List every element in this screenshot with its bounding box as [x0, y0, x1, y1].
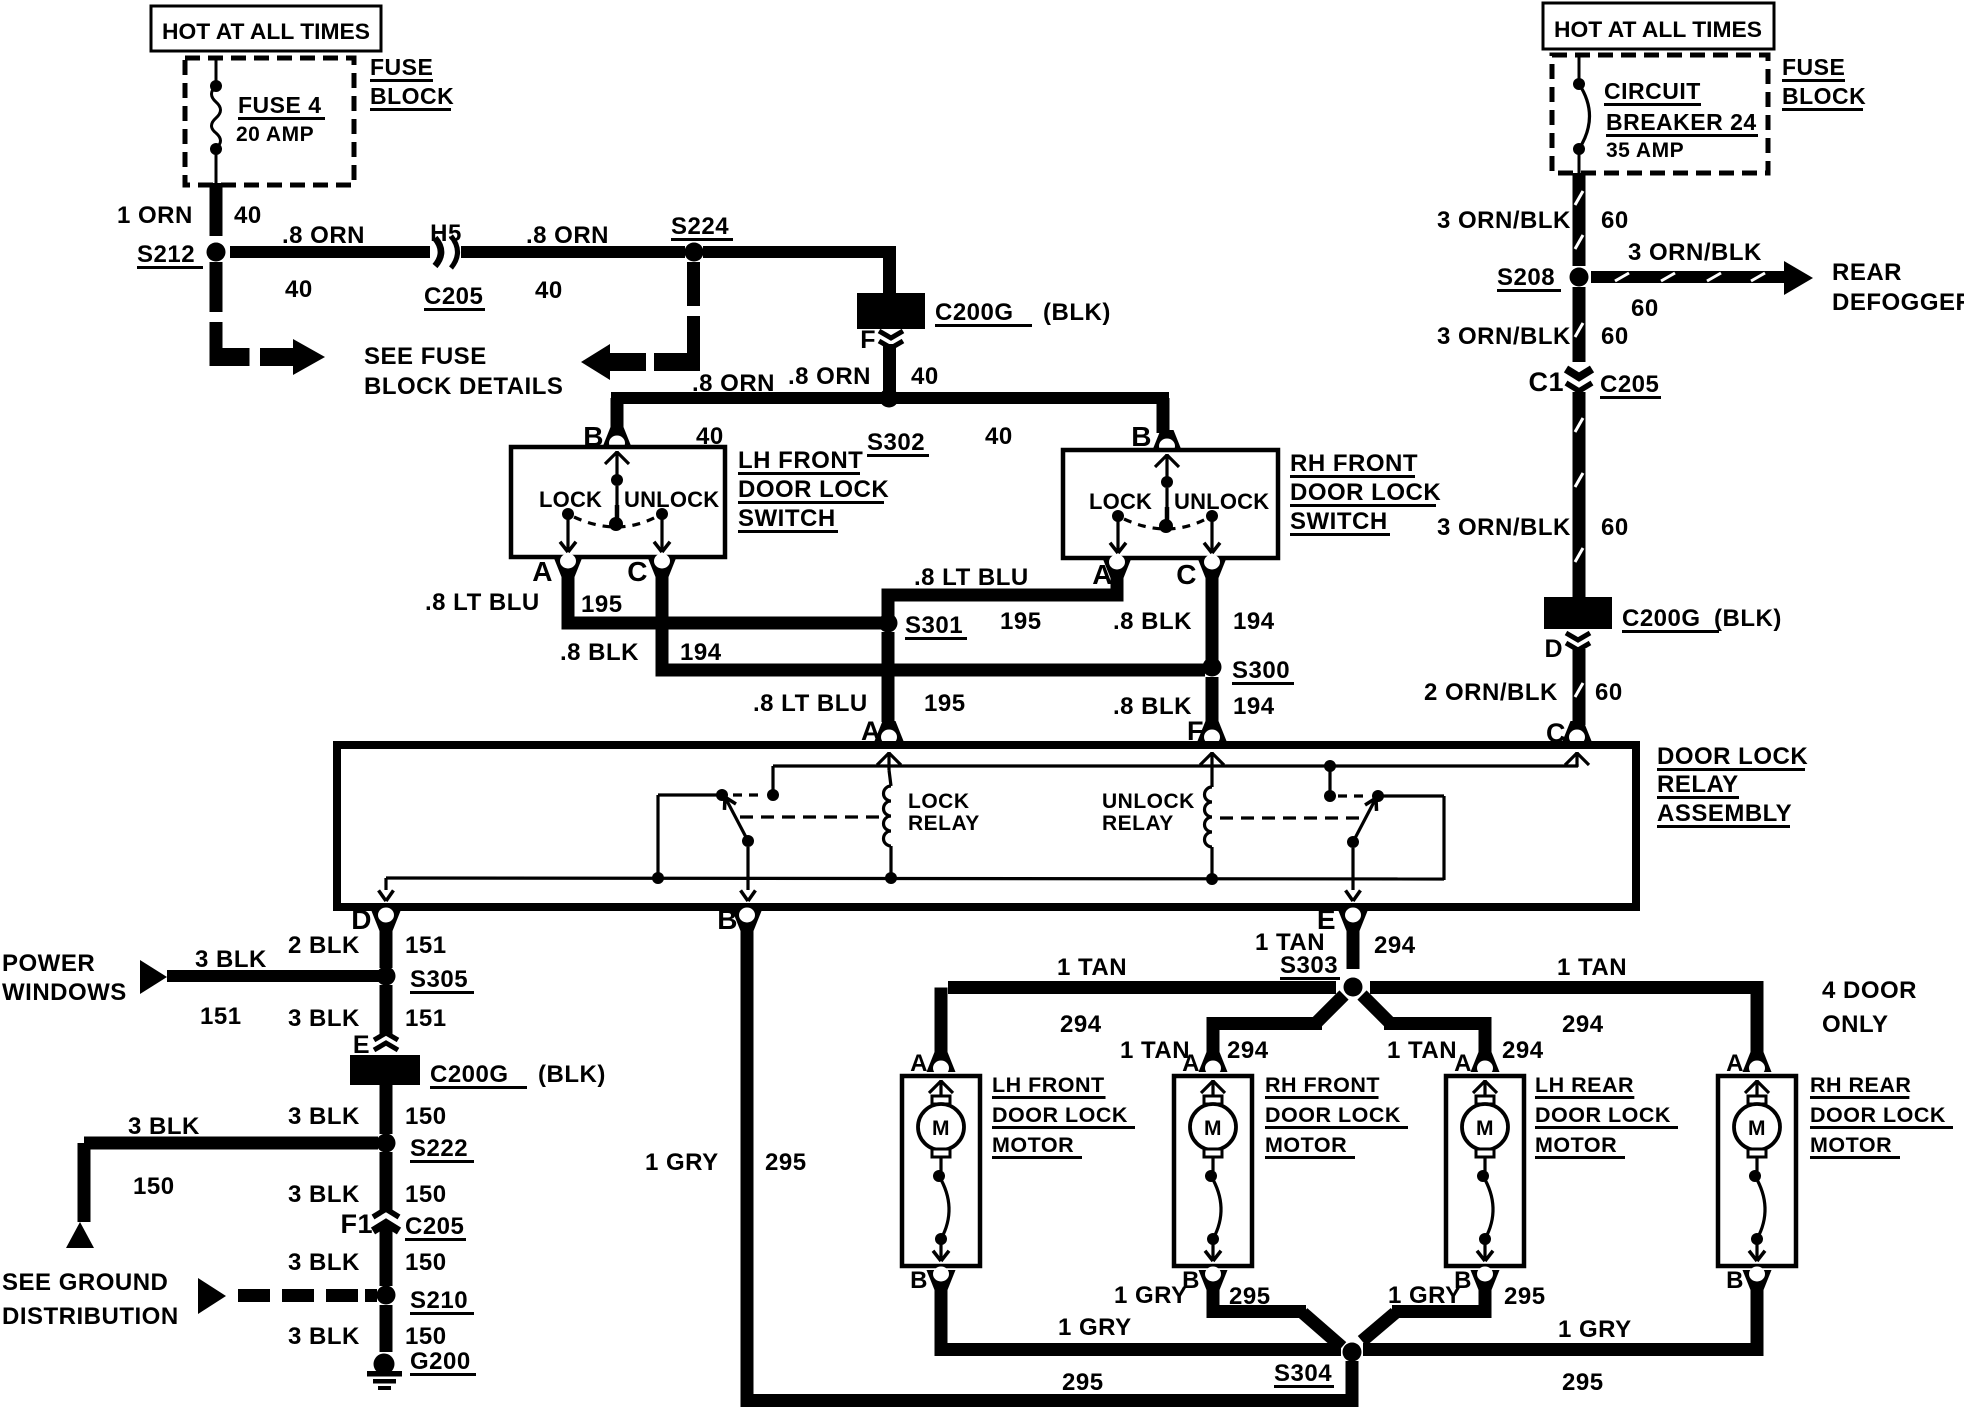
in-line connector H5 / C205 — [435, 236, 458, 268]
svg-text:S303: S303 — [1280, 952, 1338, 979]
wire label: 40 — [911, 363, 939, 390]
RH rear door lock motor pin B label — [1726, 1267, 1744, 1294]
relay pin E connector — [1339, 908, 1368, 932]
RH rear door lock motor pin A connector — [1743, 1052, 1772, 1076]
svg-text:.8 LT BLU: .8 LT BLU — [914, 564, 1029, 591]
relay internal bus junction — [1206, 873, 1218, 885]
splice S304 label — [1274, 1360, 1334, 1388]
svg-text:C205: C205 — [424, 283, 483, 310]
wire label: 3 BLK — [288, 1181, 360, 1208]
ground G200 label — [410, 1348, 476, 1376]
RH switch pin A connector — [1103, 555, 1132, 579]
svg-text:194: 194 — [1233, 608, 1275, 635]
svg-text:1 TAN: 1 TAN — [1557, 954, 1627, 981]
svg-text:294: 294 — [1562, 1011, 1604, 1038]
LH switch UNLOCK contact — [654, 508, 670, 552]
RH switch pin A label — [1092, 559, 1113, 590]
connector C200G pin D label — [1544, 635, 1563, 663]
svg-text:DOOR LOCK: DOOR LOCK — [992, 1103, 1128, 1127]
junction block label: HOT AT ALL TIMES (right) — [1543, 3, 1774, 49]
svg-text:.8 LT BLU: .8 LT BLU — [753, 690, 868, 717]
LH front door lock motor drive link — [933, 1157, 949, 1261]
svg-text:D: D — [351, 904, 372, 935]
wire label: 3 BLK — [288, 1249, 360, 1276]
svg-text:.8 ORN: .8 ORN — [282, 222, 365, 249]
wire label: 40 — [285, 276, 313, 303]
wire: S303 right to RH rear motor A (1 TAN ckt 294) — [1370, 981, 1764, 1058]
svg-text:DOOR LOCK: DOOR LOCK — [1535, 1103, 1671, 1127]
svg-text:M: M — [1476, 1117, 1494, 1140]
splice S302 — [880, 389, 899, 408]
svg-text:BREAKER 24: BREAKER 24 — [1606, 109, 1757, 135]
splice S212 label — [137, 241, 203, 269]
connector C200G (left) body — [857, 293, 925, 329]
svg-text:DOOR LOCK: DOOR LOCK — [1810, 1103, 1946, 1127]
relay internal bus junction — [885, 872, 897, 884]
relay pin C internal contact (male) — [1565, 752, 1589, 766]
svg-text:B: B — [1726, 1267, 1744, 1294]
wire label: 1 GRY — [1388, 1282, 1462, 1309]
RH switch pin C connector — [1198, 555, 1227, 579]
svg-text:3 ORN/BLK: 3 ORN/BLK — [1437, 514, 1571, 541]
wire label: 150 — [405, 1323, 447, 1350]
wire label: 295 — [1229, 1283, 1271, 1310]
lock relay contact pivot — [716, 789, 728, 801]
svg-text:LOCK: LOCK — [908, 790, 970, 813]
door lock relay assembly outline — [337, 745, 1636, 907]
svg-text:RH REAR: RH REAR — [1810, 1073, 1911, 1097]
wire label: 1 GRY — [1114, 1282, 1188, 1309]
RH rear door lock motor outline — [1718, 1076, 1796, 1266]
wire: LH switch A down-right to S301 (.8 LT BLU ckt 195) — [562, 574, 885, 630]
svg-text:195: 195 — [924, 690, 966, 717]
relay pin D internal contact (arrow down) — [379, 878, 394, 901]
LH switch pin B label — [583, 421, 604, 452]
svg-text:SEE FUSE: SEE FUSE — [364, 343, 487, 370]
svg-text:3 ORN/BLK: 3 ORN/BLK — [1437, 207, 1571, 234]
svg-text:1 GRY: 1 GRY — [1058, 1314, 1132, 1341]
svg-text:DOOR LOCK: DOOR LOCK — [1265, 1103, 1401, 1127]
RH rear door lock motor internal feed arrow (pin A) — [1745, 1080, 1769, 1098]
wire label: .8 LT BLU — [753, 690, 868, 717]
note label: SEE GROUND DISTRIBUTION — [2, 1269, 179, 1330]
wire: LH front motor B down-right to S304 (1 GRY ckt 295) — [935, 1285, 1342, 1356]
wire: S302 down to RH switch pin B — [1157, 398, 1170, 433]
wire label: 151 — [200, 1003, 242, 1030]
wire: S210 down to G200 (3 BLK ckt 150) — [380, 1305, 393, 1352]
svg-text:S208: S208 — [1497, 264, 1555, 291]
splice S210 label — [410, 1287, 474, 1315]
svg-text:C200G: C200G — [935, 299, 1014, 326]
svg-text:3 BLK: 3 BLK — [288, 1249, 360, 1276]
svg-text:C205: C205 — [1600, 371, 1659, 398]
svg-text:195: 195 — [581, 591, 623, 618]
LH switch wiper travel (dashed arc) — [574, 517, 656, 527]
connector C200G (right) label — [1622, 605, 1782, 633]
LH rear door lock motor outline — [1446, 1076, 1524, 1266]
splice S301 label — [905, 612, 967, 640]
relay pin D label — [351, 904, 372, 935]
junction block label: HOT AT ALL TIMES (left) — [151, 6, 381, 51]
splice S303 — [1344, 978, 1363, 997]
relay pin E label — [1317, 904, 1336, 935]
wire label: .8 ORN — [526, 222, 609, 249]
connector H5 label — [430, 220, 462, 247]
wire: S212 stub down toward fuse block details (dashed) — [210, 262, 250, 366]
door lock relay assembly name label — [1657, 743, 1808, 828]
wire label: 3 ORN/BLK — [1437, 207, 1571, 234]
relay pin B connector — [733, 908, 762, 932]
unlock relay label — [1102, 790, 1195, 835]
wire: H5 to S224 (.8 ORN ckt 40) — [461, 246, 685, 258]
wire label: 1 GRY — [645, 1149, 719, 1176]
svg-text:MOTOR: MOTOR — [992, 1133, 1074, 1157]
wire: S302 horizontal rail (.8 ORN ckt 40) — [611, 392, 1169, 404]
svg-text:3 BLK: 3 BLK — [128, 1113, 200, 1140]
wire label: 60 — [1595, 679, 1623, 706]
wire label: .8 ORN — [282, 222, 365, 249]
svg-text:194: 194 — [1233, 693, 1275, 720]
splice S208 label — [1497, 264, 1561, 292]
lock relay contact pivot dashes — [733, 793, 765, 796]
wire: S212 to H5 (.8 ORN ckt 40) — [230, 246, 430, 258]
connector C205 label (at H5) — [424, 283, 485, 311]
svg-text:F1: F1 — [340, 1209, 373, 1239]
connector C200G (bottom) label — [430, 1061, 606, 1089]
splice S224 label — [671, 213, 733, 241]
svg-text:BLOCK: BLOCK — [1782, 83, 1866, 109]
circuit breaker 24 element symbol — [1573, 55, 1590, 174]
wire: RH front motor B down to S304 (1 GRY ckt 295) — [1207, 1285, 1343, 1347]
svg-text:150: 150 — [133, 1173, 175, 1200]
svg-text:SWITCH: SWITCH — [738, 505, 836, 532]
wire label: 3 BLK — [288, 1005, 360, 1032]
LH front door lock switch outline — [511, 447, 725, 557]
wire: S222 left and down to ground distribution (3 BLK ckt 150) — [78, 1137, 379, 1223]
fuse block dashed outline (left) — [185, 58, 354, 185]
svg-text:A: A — [532, 556, 553, 587]
wire label: 60 — [1601, 323, 1629, 350]
note label: SEE FUSE BLOCK DETAILS — [364, 343, 563, 400]
svg-text:1 GRY: 1 GRY — [1388, 1282, 1462, 1309]
wire: F1 down to S210 (3 BLK ckt 150) — [380, 1227, 393, 1286]
relay internal node: lock contact common — [767, 766, 779, 801]
LH switch LOCK contact — [560, 508, 576, 552]
LH switch pin A connector — [554, 554, 583, 578]
splice S305 label — [410, 966, 474, 994]
wire: S208 to rear defogger (3 ORN/BLK ckt 60) — [1591, 261, 1813, 295]
lock relay coil L1 — [884, 770, 892, 878]
svg-text:150: 150 — [405, 1249, 447, 1276]
connector C205 label (right trunk) — [1600, 371, 1661, 399]
splice S302 label — [867, 429, 929, 457]
svg-text:MOTOR: MOTOR — [1810, 1133, 1892, 1157]
svg-text:DISTRIBUTION: DISTRIBUTION — [2, 1303, 179, 1330]
svg-text:A: A — [1182, 1050, 1200, 1077]
relay internal wire: pin C to contact commons (thin) — [773, 764, 1578, 767]
RH front door lock motor internal feed arrow (pin A) — [1201, 1080, 1225, 1098]
wire label: 1 TAN — [1120, 1037, 1190, 1064]
splice S303 label — [1280, 952, 1340, 980]
svg-text:C: C — [627, 556, 648, 587]
svg-text:1 GRY: 1 GRY — [1558, 1316, 1632, 1343]
LH front door lock motor name label — [992, 1073, 1135, 1159]
wire label: 3 BLK — [288, 1323, 360, 1350]
wire: LH rear motor B down to S304 (1 GRY ckt 295) — [1362, 1285, 1492, 1341]
wire label: 294 — [1562, 1011, 1604, 1038]
svg-text:.8 BLK: .8 BLK — [560, 639, 639, 666]
LH switch name label — [738, 447, 889, 533]
lock relay movable contact (blade) — [724, 797, 754, 847]
wire: fuse 4 output down to S212 (1 ORN ckt 40) — [210, 183, 223, 236]
svg-text:1 TAN: 1 TAN — [1057, 954, 1127, 981]
svg-text:1 TAN: 1 TAN — [1387, 1037, 1457, 1064]
svg-text:ONLY: ONLY — [1822, 1011, 1888, 1038]
svg-text:.8 ORN: .8 ORN — [692, 370, 775, 397]
svg-text:150: 150 — [405, 1323, 447, 1350]
svg-text:UNLOCK: UNLOCK — [624, 487, 719, 512]
svg-text:194: 194 — [680, 639, 722, 666]
svg-text:151: 151 — [200, 1003, 242, 1030]
svg-text:M: M — [1204, 1117, 1222, 1140]
wire label: 2 BLK — [288, 932, 360, 959]
svg-text:BLOCK DETAILS: BLOCK DETAILS — [364, 373, 563, 400]
relay internal node: above unlock contact — [1324, 760, 1336, 802]
wire label: 294 — [1502, 1037, 1544, 1064]
svg-text:B: B — [1131, 421, 1152, 452]
wire label: 3 ORN/BLK — [1628, 239, 1762, 266]
svg-text:S305: S305 — [410, 966, 468, 993]
svg-text:3 BLK: 3 BLK — [288, 1323, 360, 1350]
svg-text:FUSE: FUSE — [1782, 54, 1845, 80]
lock relay label — [908, 790, 980, 835]
connector C200G (left) label — [935, 299, 1111, 327]
wire label: 1 GRY — [1558, 1316, 1632, 1343]
LH front door lock motor outline — [902, 1076, 980, 1266]
LH rear door lock motor drive link — [1477, 1157, 1493, 1261]
svg-text:HOT AT ALL TIMES: HOT AT ALL TIMES — [162, 19, 370, 44]
relay pin F connector — [1198, 721, 1227, 745]
relay pin E internal contact (arrow down) — [1346, 848, 1361, 901]
svg-text:MOTOR: MOTOR — [1535, 1133, 1617, 1157]
svg-text:C200G: C200G — [430, 1061, 509, 1088]
relay pin A internal contact (male) — [877, 752, 901, 770]
svg-text:.8 ORN: .8 ORN — [526, 222, 609, 249]
connector C1 pin label — [1528, 367, 1564, 397]
wire: S222 down to F1 (3 BLK ckt 150) — [380, 1152, 393, 1210]
wire: C205 down to C200G (3 ORN/BLK ckt 60) — [1573, 392, 1586, 597]
RH rear door lock motor pin A label — [1726, 1050, 1744, 1077]
svg-text:B: B — [910, 1267, 928, 1294]
svg-text:RH FRONT: RH FRONT — [1265, 1073, 1380, 1097]
svg-text:SEE GROUND: SEE GROUND — [2, 1269, 168, 1296]
RH switch wiper travel (dashed arc) — [1124, 519, 1206, 529]
relay pin F label — [1187, 716, 1204, 746]
circuit breaker rating label: 35 AMP — [1606, 139, 1684, 162]
svg-text:.8 LT BLU: .8 LT BLU — [425, 589, 540, 616]
RH front door lock motor drive link — [1205, 1157, 1221, 1261]
relay internal wire: lock common branch — [658, 795, 717, 877]
wire label: 151 — [405, 1005, 447, 1032]
svg-text:150: 150 — [405, 1181, 447, 1208]
wire label: .8 BLK — [1113, 693, 1192, 720]
svg-text:.8 ORN: .8 ORN — [788, 363, 871, 390]
wire label: 1 ORN — [117, 202, 193, 229]
wire label: 3 ORN/BLK — [1437, 514, 1571, 541]
wire label: 150 — [405, 1103, 447, 1130]
svg-text:40: 40 — [535, 277, 563, 304]
splice S210 — [377, 1286, 396, 1305]
svg-text:LH FRONT: LH FRONT — [992, 1073, 1105, 1097]
wire label: 1 GRY — [1058, 1314, 1132, 1341]
LH rear door lock motor pin B label — [1454, 1267, 1472, 1294]
wire label: 194 — [680, 639, 722, 666]
fuse block dashed outline (right) — [1552, 55, 1768, 173]
svg-text:F: F — [860, 326, 876, 354]
LH rear door lock motor pin B connector — [1471, 1267, 1500, 1291]
svg-text:35 AMP: 35 AMP — [1606, 139, 1684, 162]
svg-text:294: 294 — [1227, 1037, 1269, 1064]
relay pin C label — [1546, 718, 1566, 748]
svg-text:195: 195 — [1000, 608, 1042, 635]
connector C200G pin D symbol — [1566, 633, 1590, 650]
svg-text:60: 60 — [1601, 207, 1629, 234]
fuse F4 rating label: 20 AMP — [236, 123, 314, 146]
splice S224 — [685, 243, 704, 262]
wire label: 3 BLK — [195, 946, 267, 973]
splice S300 — [1203, 658, 1222, 677]
circuit breaker name label: CIRCUIT BREAKER 24 — [1604, 78, 1758, 137]
svg-text:LH FRONT: LH FRONT — [738, 447, 863, 474]
svg-text:60: 60 — [1631, 295, 1659, 322]
LH rear door lock motor name label — [1535, 1073, 1678, 1159]
connector C200G pin E symbol — [374, 1033, 398, 1050]
svg-text:295: 295 — [1229, 1283, 1271, 1310]
svg-text:295: 295 — [1504, 1283, 1546, 1310]
RH switch LOCK contact — [1110, 510, 1126, 553]
LH switch UNLOCK position label — [624, 487, 719, 512]
destination label: REAR DEFOGGER — [1832, 259, 1964, 316]
svg-text:UNLOCK: UNLOCK — [1102, 790, 1195, 813]
RH front door lock motor pin A connector — [1199, 1052, 1228, 1076]
svg-text:2 ORN/BLK: 2 ORN/BLK — [1424, 679, 1558, 706]
wire label: 195 — [581, 591, 623, 618]
svg-text:WINDOWS: WINDOWS — [2, 979, 127, 1006]
wire label: 1 TAN — [1387, 1037, 1457, 1064]
wire: power windows to S305 (3 BLK ckt 151) — [167, 970, 380, 982]
svg-text:294: 294 — [1374, 932, 1416, 959]
connector F1 pin label — [340, 1209, 373, 1239]
svg-text:60: 60 — [1601, 514, 1629, 541]
svg-text:3 BLK: 3 BLK — [288, 1005, 360, 1032]
svg-text:3 BLK: 3 BLK — [288, 1103, 360, 1130]
unlock relay movable contact (blade) — [1347, 798, 1377, 848]
arrow: to ground distribution (triangle) — [66, 1222, 94, 1248]
svg-text:B: B — [717, 904, 738, 935]
ground G200 symbol — [367, 1354, 402, 1391]
wire label: 295 — [1504, 1283, 1546, 1310]
svg-text:DOOR LOCK: DOOR LOCK — [1290, 479, 1441, 506]
wire: S300 down to relay pin F (.8 BLK ckt 194) — [1206, 677, 1219, 722]
RH rear door lock motor name label — [1810, 1073, 1953, 1159]
wire label: 40 — [234, 202, 262, 229]
svg-text:S302: S302 — [867, 429, 925, 456]
svg-text:S304: S304 — [1274, 1360, 1332, 1387]
svg-text:ASSEMBLY: ASSEMBLY — [1657, 800, 1792, 827]
svg-text:(BLK): (BLK) — [1043, 299, 1111, 326]
LH front door lock motor pin B connector — [927, 1267, 956, 1291]
svg-text:.8 BLK: .8 BLK — [1113, 693, 1192, 720]
svg-text:RELAY: RELAY — [1657, 771, 1739, 798]
RH switch pin B connector — [1153, 430, 1182, 478]
svg-text:S212: S212 — [137, 241, 195, 268]
wire: breaker 24 down to S208 (3 ORN/BLK ckt 60) — [1573, 173, 1586, 266]
RH switch common feed: dot and wiper — [1159, 476, 1173, 533]
RH switch UNLOCK position label — [1174, 489, 1269, 514]
RH front door lock motor outline — [1174, 1076, 1252, 1266]
svg-text:FUSE: FUSE — [370, 54, 433, 80]
splice S222 — [377, 1134, 396, 1153]
svg-text:(BLK): (BLK) — [538, 1061, 606, 1088]
wire label: 295 — [1562, 1369, 1604, 1396]
LH rear door lock motor pin A connector — [1471, 1052, 1500, 1076]
wire label: 1 TAN — [1557, 954, 1627, 981]
wire label: .8 LT BLU — [914, 564, 1029, 591]
wire: S224 right then down to C200G (.8 ORN ckt 40) — [703, 246, 896, 293]
svg-text:C: C — [1176, 559, 1197, 590]
wire: S303 down-left to RH front motor A (1 TAN ckt 294) — [1207, 995, 1345, 1058]
wire label: 60 — [1601, 207, 1629, 234]
svg-text:S222: S222 — [410, 1135, 468, 1162]
svg-text:C200G: C200G — [1622, 605, 1701, 632]
RH front door lock motor name label — [1265, 1073, 1408, 1159]
arrow: from power windows — [140, 960, 167, 994]
LH rear door lock motor pin A label — [1454, 1050, 1472, 1077]
svg-text:M: M — [1748, 1117, 1766, 1140]
LH front door lock motor pin A connector — [927, 1052, 956, 1076]
wire label: 3 BLK — [128, 1113, 200, 1140]
RH switch LOCK position label — [1089, 489, 1152, 514]
relay pin F internal contact (male) — [1200, 752, 1224, 770]
wire: relay B down and right to S304 (1 GRY ckt 295) — [741, 928, 1353, 1407]
svg-text:20 AMP: 20 AMP — [236, 123, 314, 146]
connector C200G (right) body — [1544, 597, 1612, 629]
wire label: 294 — [1227, 1037, 1269, 1064]
LH switch pin A label — [532, 556, 553, 587]
svg-text:E: E — [353, 1031, 370, 1059]
wire label: 195 — [924, 690, 966, 717]
relay pin D connector — [372, 908, 401, 932]
relay pin A label — [861, 716, 881, 746]
wire: S208 down to C205 (3 ORN/BLK ckt 60) — [1573, 287, 1586, 362]
arrow: see fuse block details (right-pointing) — [260, 339, 325, 375]
svg-text:3 ORN/BLK: 3 ORN/BLK — [1437, 323, 1571, 350]
fuse block label: FUSE BLOCK (left) — [370, 54, 454, 111]
relay pin A connector — [875, 721, 904, 745]
svg-text:1 TAN: 1 TAN — [1120, 1037, 1190, 1064]
svg-text:D: D — [1544, 635, 1563, 663]
relay pin C connector — [1563, 721, 1592, 745]
wire label: .8 BLK — [560, 639, 639, 666]
svg-text:1 GRY: 1 GRY — [645, 1149, 719, 1176]
wire: RH switch C down to S300 (.8 BLK ckt 194) — [1206, 575, 1219, 660]
svg-text:SWITCH: SWITCH — [1290, 508, 1388, 535]
svg-text:2 BLK: 2 BLK — [288, 932, 360, 959]
RH front door lock motor pin B label — [1182, 1267, 1200, 1294]
svg-text:M: M — [932, 1117, 950, 1140]
RH rear door lock motor pin B connector — [1743, 1267, 1772, 1291]
svg-text:C1: C1 — [1528, 367, 1564, 397]
